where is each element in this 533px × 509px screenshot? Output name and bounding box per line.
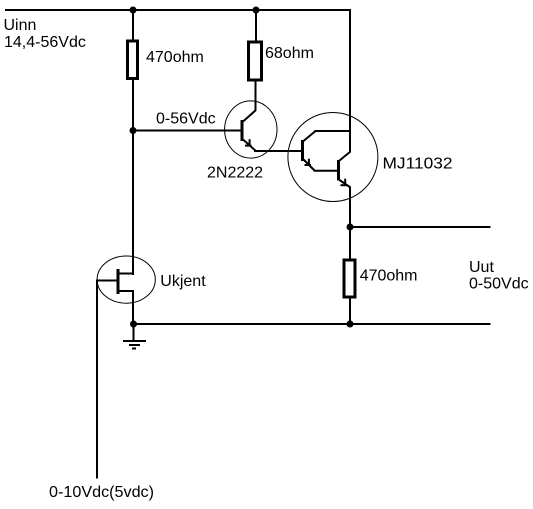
wire right drop from top rail [349,9,351,152]
svg-text:14,4-56Vdc: 14,4-56Vdc [4,34,86,51]
junction node ground [130,321,137,328]
transistor Q1 2N2222 [225,101,277,158]
svg-text:2N2222: 2N2222 [207,165,263,182]
transistor Q2 MJ11032 darlington [288,113,378,202]
junction node output top [347,224,354,231]
wire Q3 source drop [132,291,134,325]
junction node at R2 top [253,7,260,14]
resistor R1 470ohm [128,41,138,79]
wire R3 top lead [349,227,351,260]
svg-text:0-50Vdc: 0-50Vdc [469,276,529,293]
wire output top rail [350,226,491,228]
wire drain drop to Q3 [132,131,134,276]
junction node 0-56Vdc [130,127,137,134]
svg-text:68ohm: 68ohm [265,45,314,62]
wire R1 bottom lead [132,80,134,133]
junction node at R1 top [130,7,137,14]
wire R3 bottom lead [349,297,351,325]
wire R1 top lead [132,10,134,41]
wire Q1 emitter to Q2 base [254,150,303,152]
wire gate lead down to control input [97,281,117,479]
svg-text:470ohm: 470ohm [360,268,418,285]
svg-text:Ukjent: Ukjent [160,273,206,290]
wire output bottom rail [133,323,491,325]
svg-text:Uut: Uut [469,259,494,276]
resistor R2 68ohm [249,42,262,80]
svg-text:Uinn: Uinn [4,17,37,34]
wire R2 top lead [255,10,257,42]
wire R2 bottom lead / Q1 collector lead [255,81,257,111]
junction node output bottom [347,321,354,328]
svg-text:0-56Vdc: 0-56Vdc [156,111,216,128]
transistor Q3 Ukjent [96,256,155,303]
svg-text:470ohm: 470ohm [146,49,204,66]
ground [123,324,146,349]
resistor R3 470ohm [344,260,355,297]
svg-text:MJ11032: MJ11032 [383,156,453,173]
wire base feed to Q1 [133,130,242,132]
wire Q2 emitter drop [349,187,351,229]
wire top rail [5,9,351,11]
svg-text:0-10Vdc(5vdc): 0-10Vdc(5vdc) [49,484,154,501]
